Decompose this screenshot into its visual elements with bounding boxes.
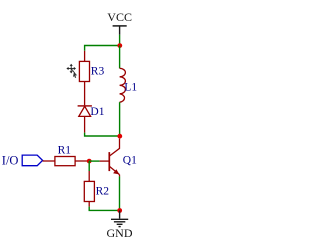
svg-text:D1: D1 bbox=[90, 106, 104, 118]
svg-text:L1: L1 bbox=[124, 81, 137, 93]
svg-text:I/O: I/O bbox=[2, 153, 19, 167]
svg-text:GND: GND bbox=[107, 226, 133, 240]
port I/O bbox=[2, 153, 43, 167]
resistor R1 bbox=[43, 145, 88, 166]
wire base node to transistor bbox=[89, 160, 99, 162]
svg-text:R2: R2 bbox=[96, 185, 110, 197]
power VCC bbox=[107, 10, 132, 35]
node top junction bbox=[117, 43, 122, 48]
ground bbox=[111, 211, 128, 227]
cursor (move tool) bbox=[66, 64, 77, 78]
svg-text:R3: R3 bbox=[91, 65, 105, 77]
wire VCC stem to top junction bbox=[119, 35, 121, 46]
wire top horizontal rail bbox=[85, 46, 120, 51]
svg-text:R1: R1 bbox=[58, 145, 72, 157]
wire base node down to R2 bbox=[88, 161, 90, 171]
diode D1 bbox=[78, 106, 105, 133]
wire R2 to ground junction bbox=[89, 207, 119, 211]
node collector junction bbox=[117, 134, 122, 139]
node base junction bbox=[87, 159, 92, 164]
wire emitter down bbox=[119, 176, 121, 210]
transistor Q1 bbox=[100, 139, 138, 177]
wire D1 to collector junction bbox=[85, 133, 120, 136]
svg-text:VCC: VCC bbox=[107, 10, 132, 24]
svg-text:Q1: Q1 bbox=[123, 155, 137, 167]
resistor R2 bbox=[84, 171, 109, 207]
resistor R3 bbox=[79, 51, 104, 106]
inductor L1 bbox=[120, 46, 138, 137]
node ground junction bbox=[117, 208, 122, 213]
